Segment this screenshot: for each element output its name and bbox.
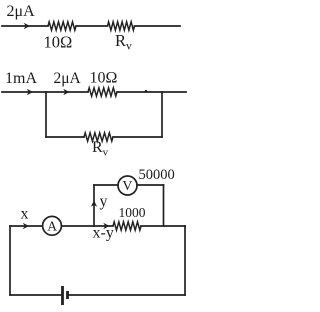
svg-text:x: x	[21, 206, 29, 223]
arrow x current direction	[23, 223, 29, 229]
wire figure2 left branch vertical	[45, 92, 47, 137]
wire voltmeter branch top left	[94, 184, 118, 186]
wire figure1 middle segment	[76, 25, 108, 27]
arrow y current direction	[91, 201, 97, 207]
wire figure3 bottom right	[69, 294, 185, 296]
arrow 2uA current direction	[63, 89, 69, 95]
ammeter A	[43, 216, 62, 235]
arrow x-y current direction	[103, 223, 109, 229]
wire voltmeter branch vertical right	[163, 185, 165, 226]
junction node figure2	[145, 90, 148, 93]
wire voltmeter branch top right	[137, 184, 164, 186]
wire figure2 main left segment	[2, 91, 88, 93]
wire figure3 right side	[184, 226, 186, 295]
arrow 1mA current direction	[27, 89, 33, 95]
wire figure2 main right segment	[117, 91, 186, 93]
resistor 10ohm figure2	[88, 88, 117, 96]
wire figure2 right branch vertical	[161, 92, 163, 137]
wire figure1 left segment	[2, 25, 48, 27]
voltmeter V	[118, 176, 137, 195]
wire figure3 left side	[9, 226, 11, 295]
arrow current direction figure1	[24, 23, 30, 29]
svg-text:x-y: x-y	[93, 225, 114, 242]
wire figure3 top right segment	[141, 225, 185, 227]
resistor 1000 figure3	[113, 222, 141, 230]
battery cell short plate	[66, 291, 69, 299]
svg-text:2μA: 2μA	[54, 70, 82, 87]
svg-text:50000: 50000	[139, 167, 175, 183]
resistor Rv figure1	[108, 22, 135, 30]
wire figure3 top middle segment	[62, 225, 114, 227]
svg-text:1mA: 1mA	[5, 70, 37, 87]
resistor Rv figure2	[84, 133, 113, 141]
wire figure1 right segment	[135, 25, 181, 27]
wire figure2 bottom branch right	[113, 136, 162, 138]
svg-text:10Ω: 10Ω	[44, 33, 73, 52]
wire voltmeter branch vertical left	[93, 185, 95, 226]
resistor 10ohm figure1	[48, 22, 76, 30]
svg-text:A: A	[47, 219, 57, 234]
svg-text:Rv: Rv	[115, 31, 132, 53]
wire figure3 top left segment	[10, 225, 43, 227]
wire figure2 bottom branch left	[46, 136, 84, 138]
wire figure3 bottom left	[10, 294, 61, 296]
svg-text:y: y	[100, 193, 108, 210]
svg-text:V: V	[122, 179, 132, 194]
svg-text:Rv: Rv	[92, 139, 109, 159]
svg-text:10Ω: 10Ω	[90, 70, 118, 87]
svg-text:2μA: 2μA	[7, 3, 36, 20]
svg-text:1000: 1000	[119, 205, 146, 220]
battery cell long plate	[61, 286, 64, 305]
